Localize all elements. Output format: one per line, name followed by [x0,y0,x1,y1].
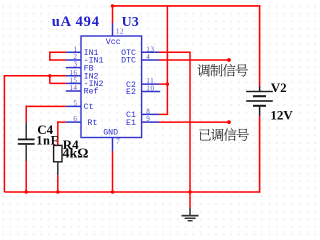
junction pin16/pin15 [48,74,51,77]
wire pin12 Vcc up [112,6,114,23]
svg-text:9: 9 [146,115,150,123]
svg-text:Rt: Rt [88,119,98,128]
ground bars [182,215,199,217]
wire pin7 GND down [112,151,114,192]
wire pin11 C2 [159,83,167,85]
pin 2 -IN1 stub [66,59,81,61]
wire V2 minus lead down to rail [259,115,261,192]
wire V2 plus lead down [259,5,261,87]
resistor R4 body [54,145,62,161]
net label modulated signal (yi tiao xin hao) [199,128,249,141]
wire pin1-pin2 feedback loop [50,51,66,53]
pin 8 C1 stub [142,113,159,115]
svg-text:DTC: DTC [121,57,136,66]
svg-text:V2: V2 [271,80,287,95]
junction C4 bottom [25,190,28,193]
pin 14 Ref stub [66,90,81,92]
svg-text:4: 4 [146,53,150,61]
wire top Vcc rail [113,5,260,7]
pin 4 DTC stub [142,59,159,61]
junction pin7 rail [111,190,114,193]
capacitor C4 top lead [25,123,27,139]
capacitor C4 plates [18,139,35,141]
ground stem [189,192,191,208]
svg-text:uA 494: uA 494 [52,14,100,30]
capacitor C4 bottom lead [25,145,27,161]
svg-text:14: 14 [69,84,77,92]
pin 5 Ct stub [66,105,81,107]
wire pin15 link [49,76,51,84]
svg-text:Vcc: Vcc [106,38,121,47]
svg-text:E1: E1 [126,119,136,128]
pin 11 C2 stub [142,83,159,85]
battery V2 plates [246,91,273,92]
svg-text:3: 3 [73,61,77,69]
wire pin4 DTC to modulation input node [159,59,229,61]
junction top corner [111,4,114,7]
wire bottom ground rail [4,191,259,193]
wire pin6 to R4 [58,121,66,123]
pin 7 GND stub [112,138,114,152]
svg-text:6: 6 [73,115,77,123]
svg-text:5: 5 [73,99,77,107]
pin 15 -IN2 stub [66,82,81,84]
wire Vcc vertical to C1 C2 [166,6,168,115]
junction C2 tap [166,82,169,85]
svg-text:U3: U3 [122,15,139,30]
pin 10 E2 stub [142,91,161,93]
junction R4 bottom [56,190,59,193]
op-amp/PWM IC U3 body [81,36,142,138]
battery V2 bottom lead [259,107,261,116]
node modulation input [227,58,231,62]
junction ground rail [188,190,191,193]
pin 9 E1 stub [142,121,159,123]
pin 3 FB stub [66,67,81,69]
svg-text:GND: GND [103,129,118,138]
wire left rail down [3,75,5,192]
svg-text:7: 7 [116,137,120,145]
svg-text:Ct: Ct [84,103,94,112]
svg-text:12V: 12V [270,108,293,123]
pin 6 Rt stub [66,121,81,123]
wire pin13 OTC down to ground rail [159,51,190,53]
battery V2 top lead [259,86,261,91]
pin 13 OTC stub [142,51,159,53]
node modulated output [227,120,231,124]
wire pin9 E1 output [159,121,229,123]
svg-text:E2: E2 [126,88,136,97]
svg-text:12: 12 [116,28,124,36]
wire pin5 to C4 [26,105,66,107]
svg-text:4kΩ: 4kΩ [63,147,89,162]
pin 12 Vcc stub [112,23,114,37]
pin 16 IN2 stub [66,75,81,77]
svg-text:Ref: Ref [84,87,99,97]
net label modulation signal (tiao zhi xin hao) [197,64,247,77]
wire pin16 to left rail [4,75,65,77]
pin 1 IN1 stub [66,51,81,53]
resistor R4 bottom lead [57,162,59,176]
svg-text:10: 10 [146,85,154,93]
